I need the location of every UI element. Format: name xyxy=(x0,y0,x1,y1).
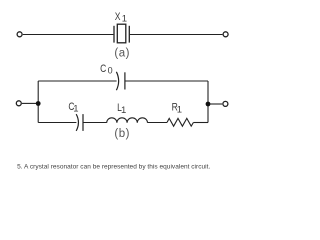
svg-text:1: 1 xyxy=(122,14,127,25)
svg-text:X: X xyxy=(115,11,121,23)
svg-text:1: 1 xyxy=(121,105,126,116)
svg-text:C: C xyxy=(100,63,106,75)
svg-text:1: 1 xyxy=(73,103,78,114)
svg-text:0: 0 xyxy=(108,66,113,76)
svg-text:1: 1 xyxy=(177,105,182,116)
svg-text:(b): (b) xyxy=(114,128,130,140)
svg-text:(a): (a) xyxy=(114,48,130,60)
svg-text:5. A crystal resonator can be: 5. A crystal resonator can be represente… xyxy=(17,164,210,171)
